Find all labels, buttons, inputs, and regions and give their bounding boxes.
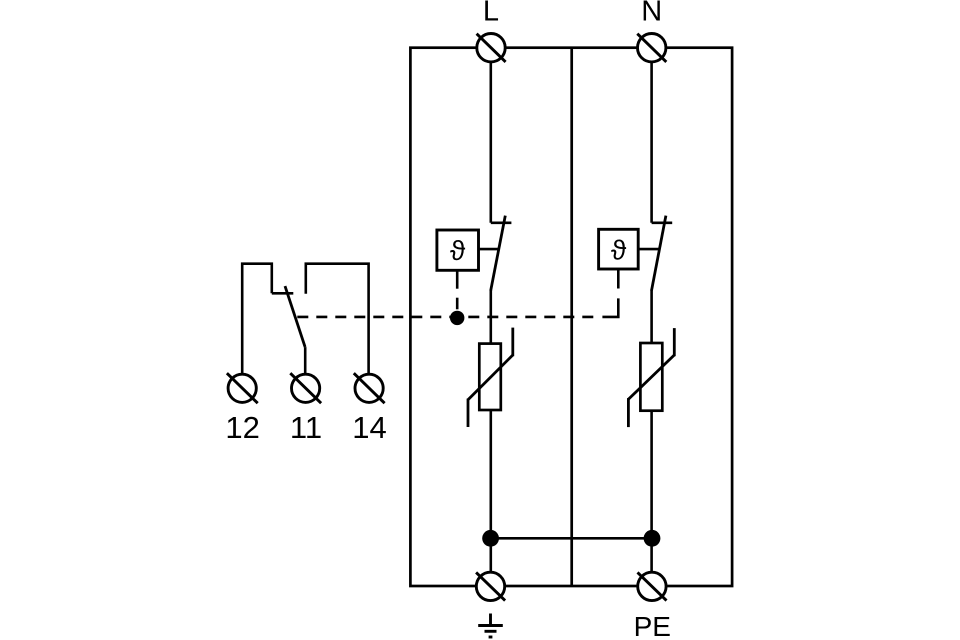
svg-text:ϑ: ϑ: [450, 235, 466, 266]
svg-text:11: 11: [290, 410, 322, 445]
switch F2 blade: [652, 216, 666, 291]
remote contact: wire terminal 12 up: [242, 264, 272, 375]
wire dashed sensor N down: [602, 269, 618, 317]
wire varistor L to bottom: [489, 410, 492, 572]
svg-text:L: L: [483, 0, 499, 28]
node bottom right: [644, 530, 661, 547]
svg-text:ϑ: ϑ: [611, 235, 627, 266]
thermal sensor θ L: [437, 230, 479, 270]
node A (trip node): [450, 311, 464, 325]
switch F2 anvil: [652, 222, 673, 225]
terminal N: [637, 34, 666, 62]
wire sensor link L: [479, 248, 499, 251]
svg-text:12: 12: [225, 410, 259, 445]
terminal 12: [227, 373, 258, 403]
wire varistor N to bottom: [650, 411, 653, 573]
contact anvil 12: [272, 292, 294, 295]
wire N top: [650, 62, 653, 223]
svg-text:14: 14: [352, 410, 386, 445]
node bottom left: [482, 530, 499, 547]
wire dashed trip line: [297, 316, 596, 319]
wire sensor link N: [638, 248, 659, 251]
terminal 11: [290, 373, 321, 403]
ground symbol: [478, 614, 503, 638]
svg-text:PE: PE: [634, 611, 671, 640]
wire bottom bus: [491, 537, 652, 540]
wire middle separator: [570, 48, 573, 586]
thermal sensor θ N: [599, 229, 639, 269]
wire dashed sensor L to node: [456, 270, 459, 309]
terminal PE: [638, 572, 667, 600]
wire L top: [489, 62, 492, 223]
terminal 14: [354, 373, 385, 403]
wire switch to varistor L: [489, 290, 492, 344]
varistor RV1: [468, 328, 513, 427]
wire terminal 11 up: [304, 347, 307, 374]
varistor RV2: [628, 328, 674, 427]
terminal ground (bottom left): [476, 572, 505, 600]
terminal L: [477, 34, 506, 62]
contact NO 14: [306, 264, 369, 375]
switch F1 blade: [491, 216, 506, 291]
wire switch to varistor N: [650, 290, 653, 343]
svg-text:N: N: [641, 0, 662, 28]
contact blade 11: [285, 286, 305, 347]
enclosure box: [410, 48, 732, 586]
switch F1 anvil: [491, 222, 512, 225]
